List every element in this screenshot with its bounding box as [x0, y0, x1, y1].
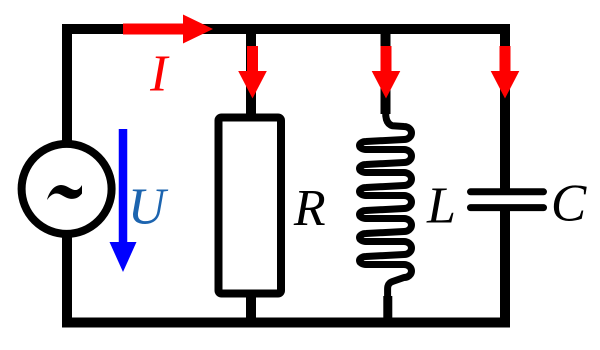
- svg-text:L: L: [426, 178, 456, 235]
- AC source tilde symbol: [47, 185, 82, 200]
- branch arrow over R head: [238, 71, 267, 99]
- branch arrow over C head: [491, 71, 520, 99]
- svg-text:I: I: [149, 46, 170, 103]
- capacitor C1 bottom plate: [471, 204, 544, 211]
- wire resistor branch stub top: [246, 29, 256, 120]
- branch arrow over L head: [372, 71, 401, 99]
- svg-text:C: C: [551, 175, 587, 233]
- wire inductor branch stub bottom: [383, 296, 392, 322]
- svg-text:R: R: [293, 180, 326, 237]
- capacitor C1 top plate: [471, 188, 544, 195]
- branch arrow over L shaft: [381, 46, 392, 74]
- branch arrow over C shaft: [500, 46, 511, 74]
- AC source circle: [22, 144, 112, 234]
- current arrow I head: [183, 15, 213, 44]
- voltage arrow U shaft (blue): [119, 129, 128, 245]
- svg-text:U: U: [128, 179, 169, 236]
- wire top rail and left/right verticals: [67, 29, 505, 193]
- current arrow I shaft (top, red): [123, 24, 186, 35]
- wire resistor branch stub bottom: [246, 290, 256, 322]
- voltage arrow U head: [110, 242, 137, 272]
- inductor L1 coil: [360, 102, 412, 305]
- wire inductor branch stub top: [381, 29, 391, 114]
- branch arrow over R shaft: [247, 46, 258, 74]
- wire bottom rail: [67, 206, 505, 323]
- resistor R1 body: [219, 118, 282, 294]
